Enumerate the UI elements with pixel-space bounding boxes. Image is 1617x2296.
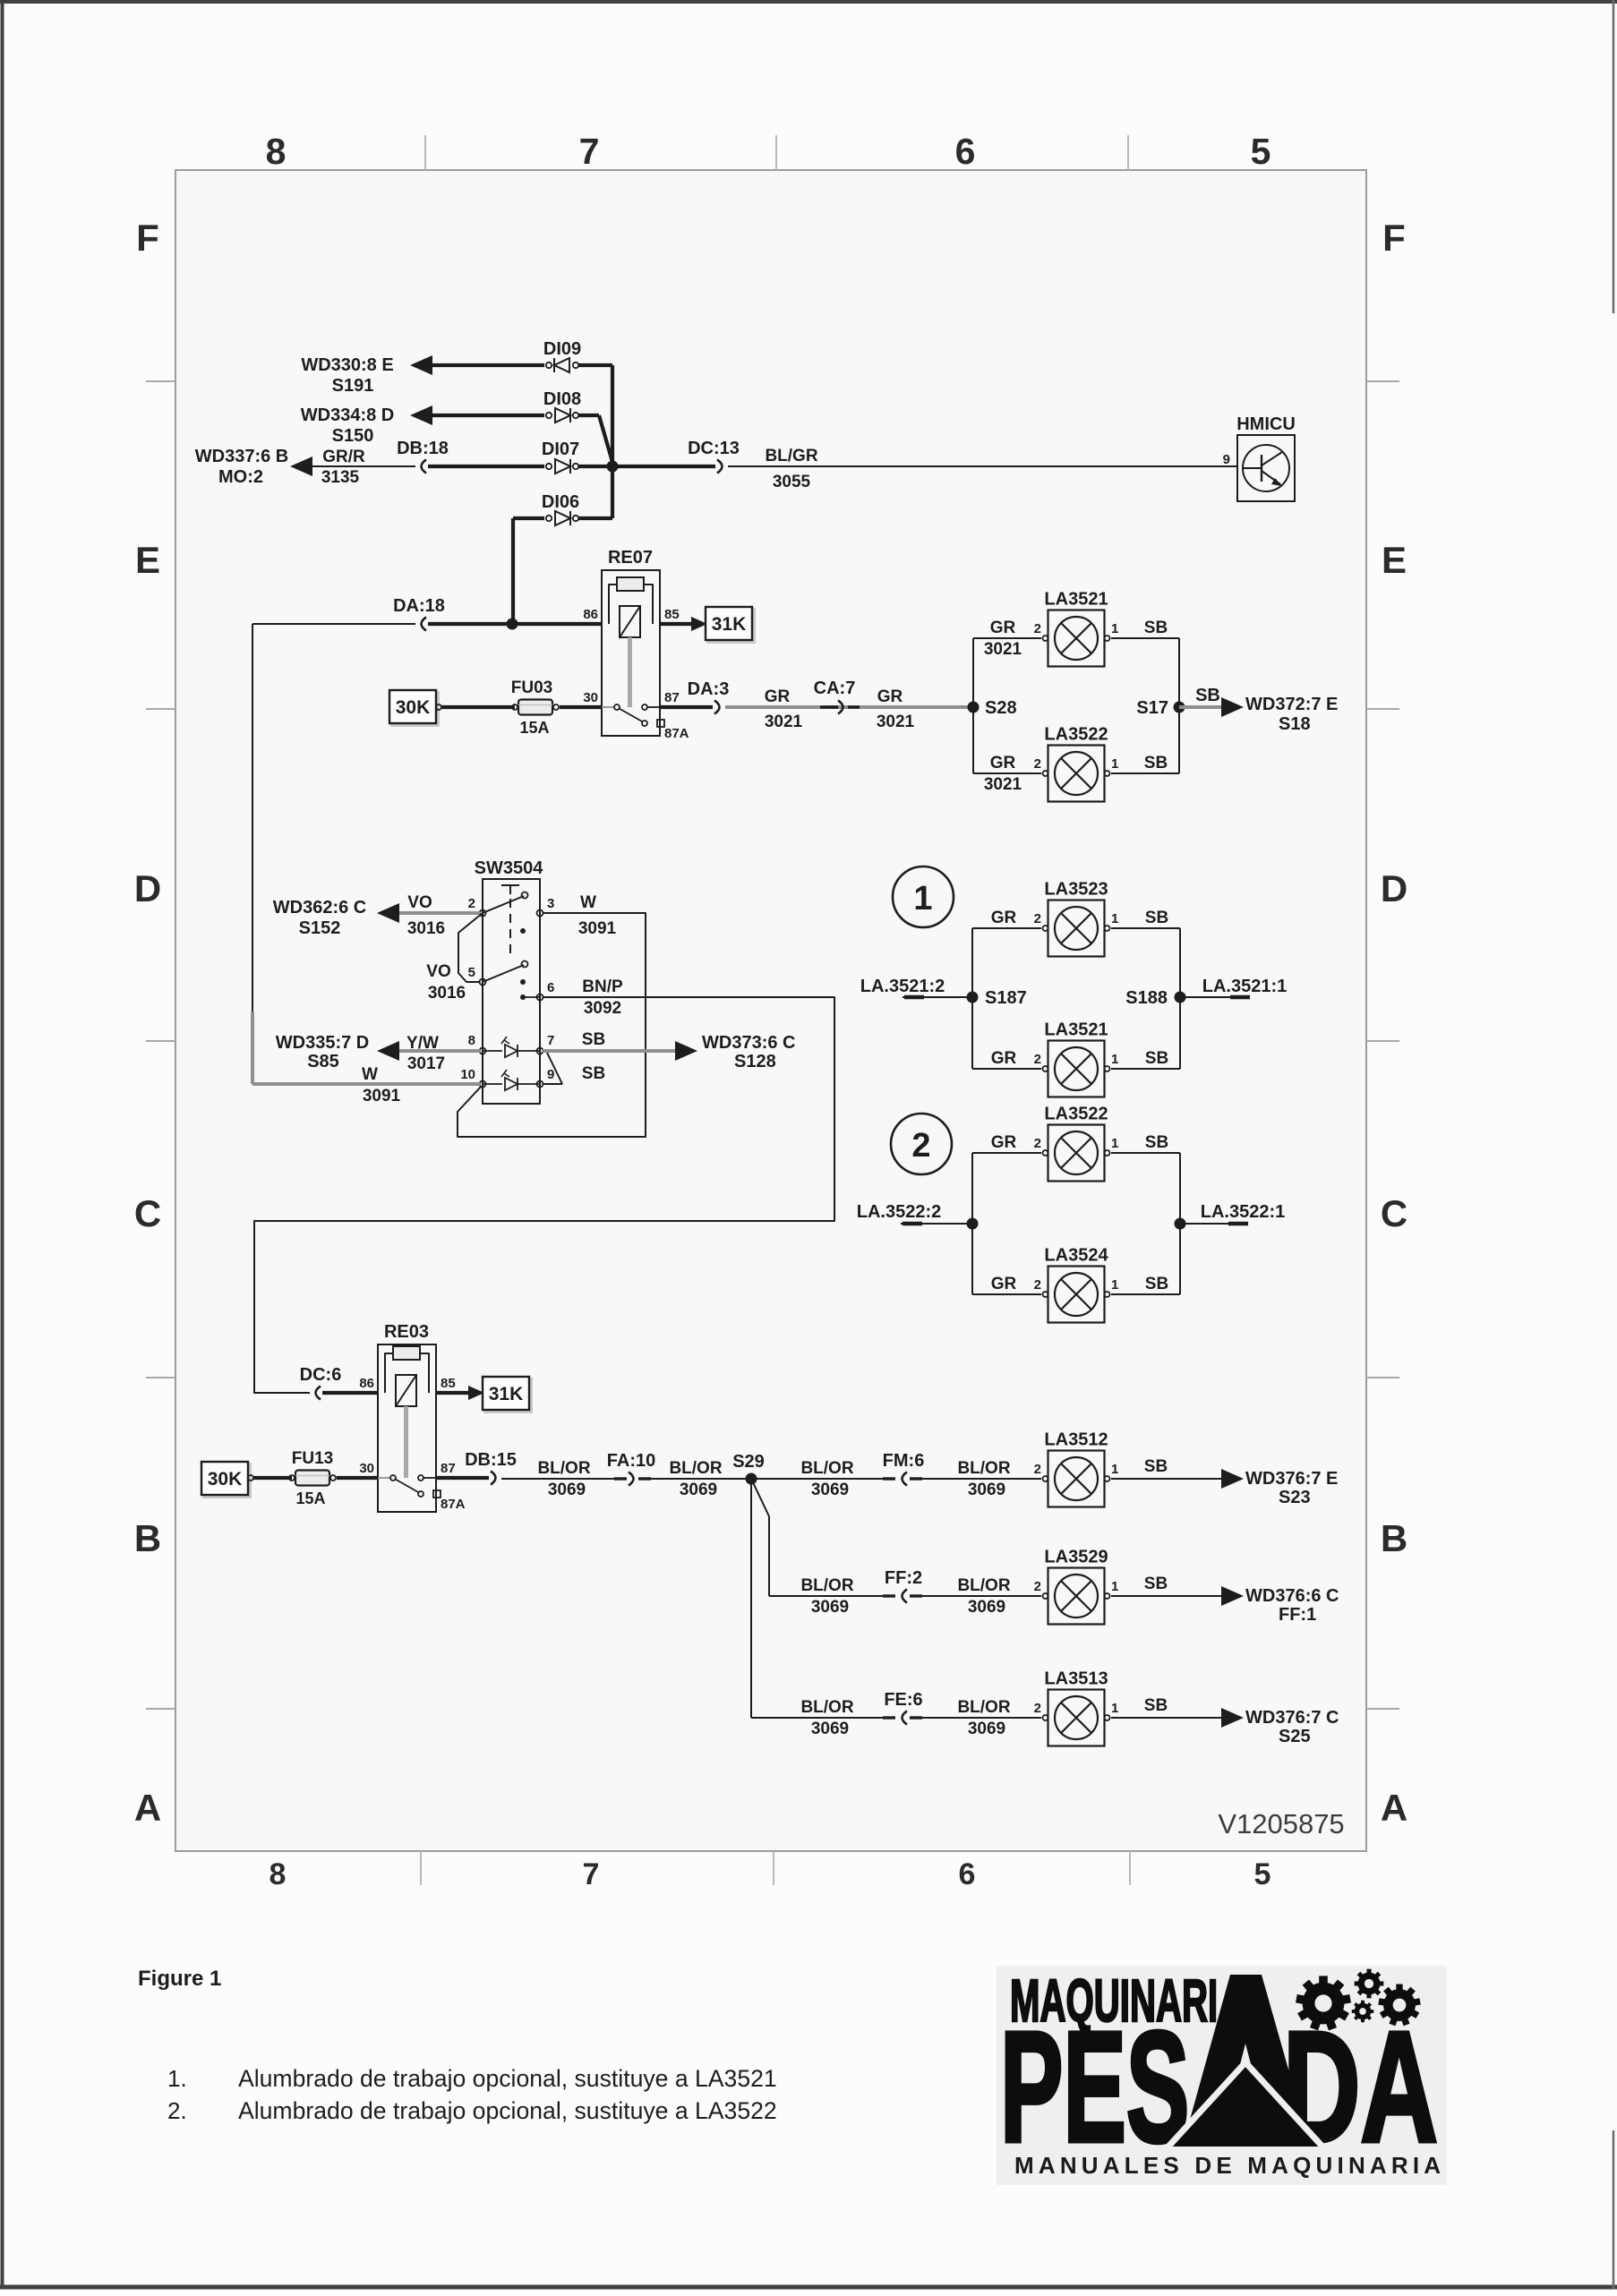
svg-text:3: 3 bbox=[547, 896, 554, 911]
svg-text:MANUALES DE MAQUINARIA: MANUALES DE MAQUINARIA bbox=[1014, 2152, 1445, 2179]
svg-text:WD330:8 E: WD330:8 E bbox=[301, 355, 393, 375]
svg-text:1: 1 bbox=[913, 880, 932, 918]
svg-text:86: 86 bbox=[583, 607, 598, 622]
svg-text:86: 86 bbox=[359, 1376, 374, 1391]
lamp LA3522 bbox=[1043, 1125, 1110, 1182]
connector DA:3 bbox=[714, 701, 720, 714]
diode DI08 bbox=[546, 408, 578, 422]
wire DA:18 branch left bbox=[252, 623, 415, 625]
diode DI09 bbox=[546, 358, 578, 372]
svg-text:RE07: RE07 bbox=[608, 548, 653, 568]
svg-text:31K: 31K bbox=[489, 1384, 524, 1404]
svg-text:S188: S188 bbox=[1125, 988, 1168, 1008]
svg-text:DI07: DI07 bbox=[542, 440, 579, 459]
svg-text:7: 7 bbox=[583, 1857, 600, 1891]
svg-text:D: D bbox=[134, 867, 161, 909]
wire DA:18 to RE07 pin 86 bbox=[428, 622, 602, 626]
svg-text:MO:2: MO:2 bbox=[218, 467, 263, 487]
svg-text:DI09: DI09 bbox=[543, 339, 581, 359]
svg-text:3091: 3091 bbox=[578, 919, 617, 938]
junction S17 bbox=[1174, 702, 1185, 713]
svg-text:LA3522: LA3522 bbox=[1044, 725, 1108, 745]
wire RE03 87 to DB:15 bbox=[436, 1476, 489, 1480]
terminal 31K RE03 bbox=[485, 1379, 532, 1413]
wire S17 riser bbox=[1178, 638, 1180, 773]
connector DB:15 bbox=[491, 1472, 496, 1485]
svg-text:2: 2 bbox=[1034, 1136, 1041, 1151]
svg-text:1: 1 bbox=[1111, 911, 1118, 926]
wire S188 riser bbox=[1179, 928, 1181, 1069]
lamp LA3521 bbox=[1043, 610, 1110, 667]
svg-text:87A: 87A bbox=[441, 1497, 466, 1512]
svg-text:SB: SB bbox=[582, 1064, 605, 1083]
wire DC:6 to RE03 pin 86 bbox=[322, 1391, 378, 1395]
svg-text:2: 2 bbox=[1034, 1701, 1041, 1716]
svg-text:3069: 3069 bbox=[811, 1481, 849, 1499]
svg-text:31K: 31K bbox=[712, 614, 747, 635]
svg-text:SB: SB bbox=[582, 1030, 605, 1049]
arrow to WD373:6 C bbox=[675, 1041, 697, 1061]
svg-text:2: 2 bbox=[1034, 911, 1041, 926]
wire left riser DA:18 down bbox=[252, 624, 253, 1011]
wire W 3091 loop pin3 to pin10 bbox=[458, 913, 646, 1137]
svg-text:SB: SB bbox=[1144, 1575, 1168, 1593]
svg-text:6: 6 bbox=[959, 1857, 976, 1891]
connector DC:6 bbox=[316, 1387, 321, 1400]
node LA.3521:2 stub bbox=[903, 996, 972, 998]
svg-text:RE03: RE03 bbox=[384, 1322, 429, 1342]
terminal 30K RE03 bbox=[204, 1464, 251, 1498]
svg-text:S150: S150 bbox=[332, 426, 374, 446]
wire FU13 to RE03 pin 30 bbox=[337, 1476, 378, 1480]
svg-text:WD373:6 C: WD373:6 C bbox=[702, 1033, 795, 1053]
svg-text:1: 1 bbox=[1111, 1052, 1118, 1067]
wire FM:6 to LA3512 bbox=[910, 1478, 1041, 1480]
svg-text:F: F bbox=[1382, 217, 1406, 259]
svg-text:3069: 3069 bbox=[968, 1598, 1005, 1617]
svg-text:S28: S28 bbox=[985, 698, 1017, 718]
svg-text:7: 7 bbox=[547, 1033, 554, 1048]
svg-text:3069: 3069 bbox=[811, 1598, 849, 1617]
wire RE03 85 to 31K bbox=[436, 1391, 477, 1395]
svg-text:S18: S18 bbox=[1279, 714, 1311, 734]
arrow to WD337:6 B bbox=[290, 457, 312, 476]
svg-text:C: C bbox=[134, 1192, 161, 1234]
arrow to WD330:8 E bbox=[410, 355, 432, 375]
svg-text:WD337:6 B: WD337:6 B bbox=[195, 447, 288, 466]
wire SB pin 9 join bbox=[543, 1083, 562, 1085]
svg-text:GR: GR bbox=[765, 687, 791, 706]
svg-text:FU13: FU13 bbox=[292, 1449, 333, 1468]
wire FE:6 to LA3513 bbox=[910, 1717, 1041, 1719]
svg-text:GR: GR bbox=[990, 754, 1016, 772]
arrow to WD372:7 E bbox=[1221, 697, 1244, 717]
svg-text:GR: GR bbox=[877, 687, 903, 706]
diode DI06 bbox=[546, 511, 578, 525]
svg-text:BN/P: BN/P bbox=[582, 977, 623, 996]
svg-text:A: A bbox=[1381, 1787, 1407, 1829]
wire LA3524 pin 1 to right riser bbox=[1111, 1293, 1180, 1295]
svg-text:SB: SB bbox=[1144, 1457, 1168, 1476]
svg-text:3021: 3021 bbox=[984, 775, 1022, 794]
svg-text:1.: 1. bbox=[167, 2065, 187, 2092]
note circle 1 bbox=[893, 866, 954, 927]
svg-text:BL/OR: BL/OR bbox=[957, 1576, 1010, 1595]
svg-text:DC:13: DC:13 bbox=[688, 439, 740, 458]
wire 30K to FU13 bbox=[253, 1476, 292, 1480]
lamp LA3523 bbox=[1043, 900, 1110, 957]
wire LA3513 to arrow bbox=[1111, 1717, 1223, 1719]
svg-text:Y/W: Y/W bbox=[406, 1034, 439, 1053]
junction S29 bbox=[746, 1473, 757, 1485]
svg-text:3135: 3135 bbox=[321, 468, 360, 487]
svg-text:LA.3521:1: LA.3521:1 bbox=[1202, 977, 1288, 996]
svg-text:GR: GR bbox=[990, 619, 1016, 637]
wire W 3091 into pin 10 bbox=[252, 1082, 480, 1086]
wire GR 3021 to S28 bbox=[725, 705, 973, 709]
wire LA3512 to arrow bbox=[1111, 1478, 1223, 1480]
svg-text:3069: 3069 bbox=[811, 1720, 849, 1738]
svg-text:DB:18: DB:18 bbox=[397, 439, 449, 458]
wire to LA3524 pin 2 bbox=[972, 1293, 1041, 1295]
svg-text:BL/OR: BL/OR bbox=[957, 1459, 1010, 1478]
svg-text:3021: 3021 bbox=[765, 713, 803, 731]
svg-text:1: 1 bbox=[1111, 1462, 1118, 1477]
svg-text:3016: 3016 bbox=[428, 984, 466, 1003]
svg-text:Alumbrado de trabajo opcional,: Alumbrado de trabajo opcional, sustituye… bbox=[238, 2097, 777, 2124]
svg-text:S152: S152 bbox=[299, 918, 341, 938]
svg-text:1: 1 bbox=[1111, 1277, 1118, 1293]
svg-text:DI06: DI06 bbox=[542, 492, 579, 512]
connector DC:13 bbox=[717, 460, 723, 474]
svg-text:WD334:8 D: WD334:8 D bbox=[301, 405, 394, 425]
connector FM:6 bbox=[883, 1477, 895, 1480]
svg-text:1: 1 bbox=[1111, 1136, 1118, 1151]
svg-text:HMICU: HMICU bbox=[1236, 414, 1296, 434]
svg-text:DA: DA bbox=[1283, 1999, 1438, 2174]
connector DA:18 bbox=[422, 618, 427, 631]
svg-text:FE:6: FE:6 bbox=[884, 1690, 922, 1710]
fuse FU03 15A bbox=[512, 700, 559, 715]
wire SB from pin 7 bbox=[543, 1049, 689, 1053]
svg-text:2: 2 bbox=[1034, 1052, 1041, 1067]
svg-text:S128: S128 bbox=[734, 1052, 776, 1071]
svg-text:Figure 1: Figure 1 bbox=[138, 1967, 221, 1991]
svg-text:3069: 3069 bbox=[968, 1481, 1005, 1499]
wire row3 to FE:6 bbox=[751, 1717, 885, 1719]
svg-text:BL/OR: BL/OR bbox=[800, 1459, 853, 1478]
lamp LA3512 bbox=[1043, 1451, 1110, 1507]
svg-text:B: B bbox=[1381, 1517, 1407, 1559]
svg-text:1: 1 bbox=[1111, 1701, 1118, 1716]
svg-text:2: 2 bbox=[911, 1127, 930, 1165]
terminal 30K bbox=[392, 693, 439, 726]
svg-text:7: 7 bbox=[579, 131, 600, 172]
svg-text:BL/OR: BL/OR bbox=[669, 1459, 722, 1478]
svg-text:30: 30 bbox=[583, 690, 598, 705]
arrow to WD376:7 E bbox=[1221, 1469, 1244, 1489]
svg-text:WD376:6 C: WD376:6 C bbox=[1245, 1586, 1339, 1606]
svg-text:2: 2 bbox=[1034, 1579, 1041, 1594]
wire DB:15 to FA:10 bbox=[501, 1478, 624, 1480]
svg-text:A: A bbox=[134, 1787, 161, 1829]
svg-text:C: C bbox=[1381, 1192, 1407, 1234]
wire LA.3522:2 riser bbox=[971, 1153, 973, 1294]
wire DI06 left leg bbox=[513, 516, 544, 520]
arrow into 31K RE03 bbox=[468, 1386, 484, 1400]
svg-text:87: 87 bbox=[441, 1461, 456, 1476]
svg-text:BL/OR: BL/OR bbox=[800, 1698, 853, 1717]
svg-text:VO: VO bbox=[407, 893, 432, 912]
arrow to WD376:6 C bbox=[1221, 1586, 1244, 1606]
wire LA3521 pin 1 to S17 riser bbox=[1111, 637, 1179, 639]
svg-text:85: 85 bbox=[664, 607, 680, 622]
svg-text:3069: 3069 bbox=[968, 1720, 1005, 1738]
svg-text:LA3512: LA3512 bbox=[1044, 1430, 1108, 1450]
fuse FU13 15A bbox=[289, 1471, 336, 1486]
svg-text:5: 5 bbox=[1254, 1857, 1271, 1891]
svg-text:D: D bbox=[1381, 867, 1407, 909]
svg-text:2: 2 bbox=[1034, 621, 1041, 636]
wire pin2-pin5 link bbox=[458, 913, 483, 982]
junction S188 bbox=[1175, 992, 1186, 1003]
wire DI08 to junction bbox=[578, 414, 599, 417]
svg-text:V1205875: V1205875 bbox=[1218, 1808, 1344, 1839]
svg-text:15A: 15A bbox=[519, 719, 549, 737]
svg-text:S29: S29 bbox=[732, 1452, 765, 1472]
wire to LA3522 pin 2 bbox=[973, 772, 1041, 774]
svg-text:30K: 30K bbox=[396, 697, 431, 718]
wire S187 riser bbox=[971, 928, 973, 1069]
svg-text:WD372:7 E: WD372:7 E bbox=[1245, 695, 1338, 714]
svg-text:3069: 3069 bbox=[680, 1481, 717, 1499]
wire VO 3016 pin 2 bbox=[398, 911, 480, 915]
wire FF:2 to LA3529 bbox=[910, 1595, 1041, 1597]
svg-text:S191: S191 bbox=[332, 376, 374, 396]
lamp LA3522 bbox=[1043, 746, 1110, 802]
svg-text:BL/OR: BL/OR bbox=[957, 1698, 1010, 1717]
svg-text:GR/R: GR/R bbox=[322, 448, 365, 466]
svg-text:3069: 3069 bbox=[548, 1481, 586, 1499]
svg-text:S17: S17 bbox=[1136, 698, 1168, 718]
svg-text:E: E bbox=[1382, 539, 1407, 581]
svg-text:9: 9 bbox=[1223, 452, 1230, 467]
wire Y/W 3017 pin 8 bbox=[397, 1049, 480, 1053]
wire to LA3523 pin 2 bbox=[972, 927, 1041, 929]
wire S17 to WD372 arrow bbox=[1179, 705, 1221, 709]
lamp LA3529 bbox=[1043, 1568, 1110, 1625]
svg-text:W: W bbox=[580, 893, 596, 912]
wire LA3522C pin 1 to right riser bbox=[1111, 1152, 1180, 1154]
svg-text:WD362:6 C: WD362:6 C bbox=[273, 898, 366, 918]
svg-text:SB: SB bbox=[1145, 1275, 1168, 1293]
wire S29 to row3 bbox=[750, 1479, 752, 1718]
wire DI09 to bus bbox=[578, 363, 612, 367]
wire LA3529 to arrow bbox=[1111, 1595, 1223, 1597]
svg-text:8: 8 bbox=[468, 1033, 475, 1048]
connector FA:10 bbox=[614, 1477, 627, 1480]
wire RE07 85 to 31K bbox=[660, 622, 700, 626]
svg-text:F: F bbox=[136, 217, 159, 259]
relay RE03 bbox=[378, 1344, 441, 1512]
bus wire DI09-DI06 bbox=[611, 365, 614, 518]
logo Maquinaria Pesada bbox=[997, 1966, 1447, 2185]
svg-text:6: 6 bbox=[547, 980, 554, 995]
svg-text:LA.3522:1: LA.3522:1 bbox=[1201, 1202, 1286, 1222]
svg-text:SB: SB bbox=[1144, 619, 1168, 637]
svg-text:3021: 3021 bbox=[877, 713, 915, 731]
svg-text:2: 2 bbox=[468, 896, 475, 911]
svg-text:FA:10: FA:10 bbox=[607, 1451, 655, 1471]
svg-text:3091: 3091 bbox=[363, 1087, 401, 1105]
svg-text:DC:6: DC:6 bbox=[300, 1365, 342, 1385]
wire DI06 down to DA:18 node bbox=[511, 518, 515, 624]
svg-text:LA.3522:2: LA.3522:2 bbox=[857, 1202, 942, 1222]
svg-text:2: 2 bbox=[1034, 1462, 1041, 1477]
wire DI06 right leg bbox=[578, 516, 612, 520]
wire LA3523 pin 1 to S188 riser bbox=[1111, 927, 1180, 929]
svg-text:PES: PES bbox=[1000, 1999, 1189, 2174]
arrow into 31K bbox=[691, 617, 707, 631]
unit HMICU bbox=[1237, 435, 1295, 501]
svg-text:3016: 3016 bbox=[407, 919, 445, 938]
svg-text:87A: 87A bbox=[664, 726, 689, 741]
svg-text:SB: SB bbox=[1144, 1696, 1168, 1715]
wire LA3522 pin 1 to S17 riser bbox=[1111, 772, 1179, 774]
wire WD334 to DI08 bbox=[432, 414, 544, 417]
svg-text:E: E bbox=[135, 539, 160, 581]
svg-text:3021: 3021 bbox=[984, 640, 1022, 659]
svg-text:SB: SB bbox=[1145, 909, 1168, 927]
svg-text:BL/OR: BL/OR bbox=[537, 1459, 590, 1478]
svg-text:87: 87 bbox=[664, 690, 680, 705]
wire FU03 to RE07 pin 30 bbox=[560, 705, 602, 709]
svg-text:FF:2: FF:2 bbox=[885, 1568, 922, 1588]
note circle 2 bbox=[891, 1114, 952, 1174]
arrow to WD376:7 C bbox=[1221, 1708, 1244, 1728]
svg-text:30: 30 bbox=[359, 1461, 374, 1476]
wire DB:18 to DI07 bbox=[428, 465, 544, 468]
svg-text:WD376:7 E: WD376:7 E bbox=[1245, 1469, 1338, 1489]
wire S29 to FM:6 bbox=[751, 1478, 885, 1480]
svg-text:LA3521: LA3521 bbox=[1044, 1020, 1108, 1040]
relay RE07 bbox=[602, 570, 664, 736]
svg-text:1: 1 bbox=[1111, 621, 1118, 636]
svg-text:SB: SB bbox=[1144, 754, 1168, 772]
lamp LA3521 bbox=[1043, 1041, 1110, 1097]
svg-text:DB:15: DB:15 bbox=[465, 1450, 517, 1470]
svg-text:SB: SB bbox=[1195, 686, 1220, 705]
wire DI07 to junction bbox=[578, 465, 612, 468]
svg-text:LA3521: LA3521 bbox=[1044, 590, 1108, 610]
svg-text:5: 5 bbox=[1251, 131, 1271, 172]
svg-text:DI08: DI08 bbox=[543, 389, 581, 409]
svg-text:LA3513: LA3513 bbox=[1044, 1669, 1108, 1689]
svg-text:30K: 30K bbox=[208, 1469, 243, 1489]
switch SW3504 bbox=[480, 879, 543, 1104]
wire to LA3521 pin 2 bbox=[973, 637, 1041, 639]
svg-text:GR: GR bbox=[991, 1133, 1017, 1152]
svg-text:SB: SB bbox=[1145, 1049, 1168, 1068]
node LA.3522:1 stub bbox=[1180, 1223, 1248, 1225]
junction S28 bbox=[968, 702, 980, 713]
svg-text:Alumbrado de trabajo opcional,: Alumbrado de trabajo opcional, sustituye… bbox=[238, 2065, 777, 2092]
svg-text:2: 2 bbox=[1034, 1277, 1041, 1293]
svg-text:GR: GR bbox=[991, 1275, 1017, 1293]
svg-text:15A: 15A bbox=[295, 1489, 325, 1507]
svg-text:FF:1: FF:1 bbox=[1279, 1605, 1316, 1625]
svg-text:3017: 3017 bbox=[407, 1054, 445, 1073]
svg-text:W: W bbox=[362, 1065, 378, 1084]
wire junction to DC:13 bbox=[612, 465, 715, 468]
wire FA:10 to S29 bbox=[638, 1478, 751, 1480]
svg-text:WD376:7 C: WD376:7 C bbox=[1245, 1708, 1339, 1728]
svg-text:10: 10 bbox=[460, 1067, 475, 1082]
wire row2 to FF:2 bbox=[769, 1595, 885, 1597]
junction LA.3522:2 bbox=[967, 1218, 979, 1230]
svg-text:5: 5 bbox=[468, 965, 475, 980]
wire S29 to row2 bbox=[751, 1479, 769, 1516]
terminal 31K bbox=[708, 610, 755, 643]
wire RE07 87 to DA:3 bbox=[660, 705, 713, 709]
wire 30K to FU03 bbox=[441, 705, 515, 709]
junction diode bus bbox=[607, 461, 619, 473]
wire LA.3522:1 riser bbox=[1179, 1153, 1181, 1294]
wire to LA3522C pin 2 bbox=[972, 1152, 1041, 1154]
arrow to WD335:7 D bbox=[377, 1041, 399, 1061]
svg-text:1: 1 bbox=[1111, 1579, 1118, 1594]
svg-text:3055: 3055 bbox=[773, 473, 811, 491]
junction S187 bbox=[967, 992, 979, 1003]
wire DC:13 to HMICU pin 9 bbox=[728, 465, 1237, 467]
connector CA:7 bbox=[820, 705, 838, 708]
svg-text:BL/OR: BL/OR bbox=[800, 1576, 853, 1595]
svg-text:GR: GR bbox=[991, 1049, 1017, 1068]
node LA.3521:1 stub bbox=[1180, 996, 1250, 998]
node LA.3522:2 stub bbox=[901, 1223, 972, 1225]
svg-text:8: 8 bbox=[269, 1857, 287, 1891]
wire to LA3521D pin 2 bbox=[972, 1068, 1041, 1070]
svg-text:2.: 2. bbox=[167, 2097, 187, 2124]
svg-text:B: B bbox=[134, 1517, 161, 1559]
diode DI07 bbox=[546, 459, 578, 474]
wire LA3521D pin 1 to S188 riser bbox=[1111, 1068, 1180, 1070]
wire arrow to DB:18 bbox=[312, 465, 415, 467]
svg-text:85: 85 bbox=[441, 1376, 456, 1391]
svg-text:2: 2 bbox=[1034, 756, 1041, 772]
connector FE:6 bbox=[883, 1716, 895, 1719]
svg-text:LA3522: LA3522 bbox=[1044, 1105, 1108, 1124]
svg-text:SB: SB bbox=[1145, 1133, 1168, 1152]
svg-text:8: 8 bbox=[266, 131, 287, 172]
svg-text:DA:3: DA:3 bbox=[688, 679, 730, 699]
svg-text:FU03: FU03 bbox=[511, 679, 552, 697]
svg-text:6: 6 bbox=[955, 131, 976, 172]
svg-text:GR: GR bbox=[991, 909, 1017, 927]
svg-text:1: 1 bbox=[1111, 756, 1118, 772]
svg-text:3092: 3092 bbox=[584, 999, 621, 1018]
arrow to WD334:8 D bbox=[410, 405, 432, 425]
svg-text:LA3524: LA3524 bbox=[1044, 1246, 1108, 1266]
svg-text:SW3504: SW3504 bbox=[475, 858, 544, 878]
svg-text:BL/GR: BL/GR bbox=[765, 447, 817, 465]
lamp LA3513 bbox=[1043, 1690, 1110, 1746]
svg-text:LA.3521:2: LA.3521:2 bbox=[860, 977, 945, 996]
wire BN/P 3092 from pin 6 bbox=[254, 997, 834, 1393]
svg-text:WD335:7 D: WD335:7 D bbox=[276, 1033, 369, 1053]
svg-text:S25: S25 bbox=[1279, 1727, 1311, 1746]
svg-text:S85: S85 bbox=[307, 1052, 339, 1071]
